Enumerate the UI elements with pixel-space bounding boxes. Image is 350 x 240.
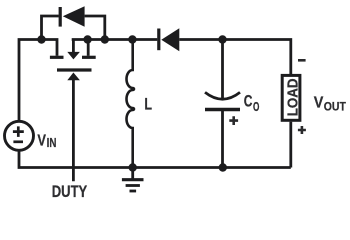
- node: junction dot inductor bottom / ground: [129, 163, 137, 171]
- node: junction dot diode-loop right on switch rail: [101, 35, 109, 43]
- LOAD box: [282, 75, 300, 120]
- wire: VIN top lead + left rail (VIN node) turning down into MOSFET drain lead: [19, 40, 57, 122]
- wire: VIN bottom lead + ground bottom rail: [19, 150, 291, 167]
- source VIN circle: [5, 121, 34, 150]
- svg-text:O: O: [253, 99, 259, 114]
- node: junction dot capacitor top on output rail: [218, 35, 226, 43]
- diode D (catch diode) triangle pointing left: [161, 28, 179, 51]
- wire: rail from diode D to output corner, down to LOAD top: [179, 40, 290, 75]
- svg-text:L: L: [144, 96, 152, 114]
- svg-text:V: V: [314, 95, 324, 112]
- svg-text:LOAD: LOAD: [285, 79, 301, 117]
- source VIN minus sign: [13, 140, 23, 143]
- wire: riser from VIN rail up to body-diode loop: [42, 16, 59, 40]
- node: junction dot inductor top on switch rail: [128, 35, 136, 43]
- wire: DUTY gate drive line crossing ground rail: [72, 80, 75, 182]
- inductor L coil: [127, 40, 134, 168]
- transistor gate bar: [57, 68, 92, 71]
- gate drive arrow head (up, toward gate): [67, 73, 80, 81]
- transistor source contact bar: [82, 56, 96, 59]
- capacitor CO polarity plus sign: [229, 116, 238, 125]
- wire: LOAD bottom lead to ground rail: [289, 122, 292, 168]
- svg-text:V: V: [37, 133, 46, 150]
- node: junction dot capacitor bottom on ground rail: [219, 163, 227, 171]
- capacitor CO curved top plate: [205, 92, 240, 99]
- transistor drain contact bar: [50, 56, 64, 59]
- transistor switch (MOSFET): [50, 40, 96, 71]
- capacitor CO straight bottom plate: [205, 108, 240, 112]
- source VIN plus sign: [13, 126, 24, 136]
- diode (body diode) triangle pointing left: [63, 6, 85, 27]
- label plus at LOAD bottom: [298, 126, 306, 134]
- svg-text:DUTY: DUTY: [52, 183, 87, 201]
- wire: body-diode loop right side down to switch node: [85, 16, 105, 40]
- diode (body diode across switch) cathode bar: [59, 7, 62, 27]
- transistor channel arrow (down) head: [67, 52, 80, 60]
- node: junction dot diode-loop left on VIN rail: [37, 35, 45, 43]
- svg-text:OUT: OUT: [324, 100, 347, 114]
- wire: capacitor CO bottom lead: [221, 111, 224, 168]
- node: junction dot MOSFET source on switch rail: [83, 35, 91, 43]
- wire: switch-node rail from MOSFET to catch diode D: [72, 38, 158, 41]
- label minus at LOAD top: [298, 59, 306, 62]
- ground symbol: [122, 168, 144, 192]
- transistor channel arrow (down) shaft: [72, 40, 75, 53]
- wire: capacitor CO top lead: [221, 40, 224, 99]
- transistor source lead: [87, 40, 90, 56]
- svg-text:IN: IN: [47, 136, 57, 150]
- svg-text:C: C: [244, 93, 253, 111]
- diode D (catch diode) cathode bar: [157, 29, 160, 51]
